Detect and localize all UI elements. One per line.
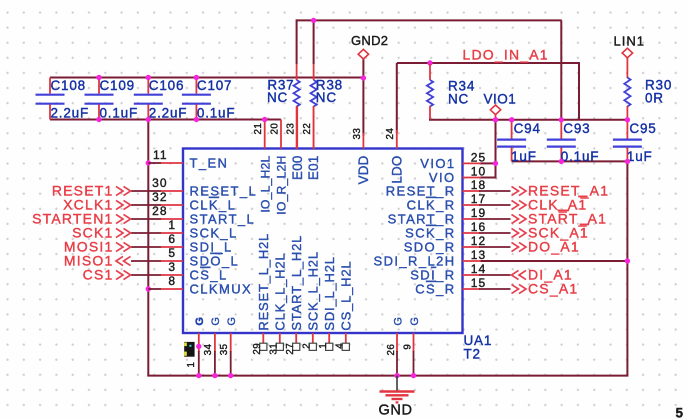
junction C93 top / top-net leg <box>559 117 564 122</box>
resistor R30 bottom lead <box>626 106 628 121</box>
bottom pin stub 27 <box>295 333 297 344</box>
wire to pin25 <box>480 162 496 164</box>
pin 11 stub <box>161 162 183 164</box>
wire pin 32 <box>131 204 161 206</box>
pin 1 stub <box>161 232 183 234</box>
pin 25 stub <box>463 162 482 164</box>
wire pin 1 <box>131 232 161 234</box>
bottom pin stub 1 <box>328 333 330 344</box>
svg-text:5: 5 <box>168 246 176 260</box>
wire pin13 SDI_R_L2H to right vertical <box>480 260 628 262</box>
pin 30 stub <box>161 190 183 192</box>
junction top row <box>96 75 101 80</box>
svg-text:LIN1: LIN1 <box>614 34 645 49</box>
wire pin 5 <box>131 260 161 262</box>
selection-highlighted pin number (black box) <box>184 342 194 357</box>
svg-text:22: 22 <box>302 123 313 135</box>
svg-text:4: 4 <box>334 343 345 349</box>
svg-text:GND2: GND2 <box>351 33 388 48</box>
svg-text:C109: C109 <box>100 78 135 93</box>
capacitor C108 <box>36 94 65 96</box>
arrow CS1 <box>116 270 123 279</box>
wire top-net right leg down to VIO row <box>560 20 562 119</box>
svg-text:17: 17 <box>471 192 486 206</box>
wire left GND vertical <box>147 120 149 376</box>
pin 23 stub <box>296 106 298 149</box>
pin 12 stub <box>463 246 481 248</box>
svg-text:G: G <box>392 317 404 326</box>
wire VIO1 down to pins 25/10 <box>495 120 497 178</box>
svg-text:C106: C106 <box>149 78 184 93</box>
wire pin24 LDO vertical <box>396 63 398 133</box>
svg-text:15: 15 <box>471 276 486 290</box>
wire pin 8 <box>148 288 161 290</box>
resistor R34 <box>427 80 433 107</box>
wire pin 18 <box>479 190 511 192</box>
capacitor C107 bottom lead <box>195 105 197 120</box>
svg-text:16: 16 <box>471 220 486 234</box>
wire R37 top lead upper <box>296 19 298 64</box>
capacitor C108 top lead <box>49 78 51 94</box>
svg-text:0R: 0R <box>645 91 664 106</box>
pin 16 stub <box>463 232 481 234</box>
svg-text:35: 35 <box>219 343 230 355</box>
no-connect square pin 2 <box>309 343 316 350</box>
capacitor C106 <box>134 94 163 96</box>
svg-text:SDI_R: SDI_R <box>410 268 455 283</box>
arrow STA<tspan text-decoration="overline">R</tspan>T_A1 <box>512 214 519 223</box>
svg-text:31: 31 <box>268 343 279 355</box>
svg-text:CLK_R: CLK_R <box>407 198 456 213</box>
pin 6 stub <box>161 246 183 248</box>
svg-text:SCK_L_H2L: SCK_L_H2L <box>305 251 320 330</box>
svg-text:T_EN: T_EN <box>190 156 229 171</box>
no-connect square pin 29 <box>260 343 267 350</box>
arrow RESET_A1 <box>512 186 519 195</box>
svg-text:E00: E00 <box>290 156 305 180</box>
junction pin 25 <box>493 161 498 166</box>
svg-text:1: 1 <box>168 218 176 232</box>
bottom pin stub 29 <box>262 333 264 344</box>
resistor R37 top lead <box>296 64 298 80</box>
junction C95 bottom / right vertical <box>625 159 630 164</box>
capacitor C109 top lead <box>98 78 100 94</box>
pin 17 stub <box>463 204 481 206</box>
svg-text:GND: GND <box>379 403 413 419</box>
bottom pin stub 2 <box>312 333 314 344</box>
pin 10 stub <box>463 177 482 179</box>
svg-text:C108: C108 <box>51 78 86 93</box>
pin 28 stub <box>161 218 183 220</box>
svg-text:1uF: 1uF <box>627 149 653 164</box>
wire pin 11 <box>148 162 161 164</box>
capacitor C95 top lead <box>626 120 628 139</box>
svg-text:C94: C94 <box>514 121 541 136</box>
junction on bus <box>196 373 201 378</box>
svg-text:29: 29 <box>252 343 263 355</box>
svg-text:START_L_H2L: START_L_H2L <box>289 235 304 331</box>
no-connect square pin 4 <box>342 343 349 350</box>
capacitor C109 bottom lead <box>98 105 100 120</box>
junction GND2 / caps top row <box>361 75 366 80</box>
wire LDO_IN_A1 leg down <box>578 62 580 120</box>
svg-text:25: 25 <box>471 151 486 165</box>
svg-text:CS1: CS1 <box>83 267 114 283</box>
junction R38 / top wire <box>311 18 316 23</box>
svg-text:SDO_R: SDO_R <box>404 240 456 255</box>
svg-text:RESET_L: RESET_L <box>190 184 258 199</box>
power port GND2 diamond <box>358 49 368 59</box>
pin 24 stub <box>396 130 398 149</box>
junction top row <box>194 75 199 80</box>
pin 15 stub <box>463 288 481 290</box>
wire right caps bottom row <box>512 160 628 162</box>
wire R38 top lead upper <box>313 19 315 64</box>
svg-text:33: 33 <box>352 128 363 140</box>
svg-text:NC: NC <box>448 92 469 107</box>
pin 18 stub <box>463 190 481 192</box>
pin 20 stub <box>280 120 282 149</box>
capacitor C94 bottom lead <box>511 148 513 162</box>
svg-text:23: 23 <box>286 123 297 135</box>
svg-text:G: G <box>409 317 421 326</box>
svg-text:CLK_L: CLK_L <box>190 198 237 213</box>
port LIN1 diamond <box>622 48 632 58</box>
no-connect square pin 27 <box>293 343 300 350</box>
svg-text:LDO: LDO <box>389 156 404 184</box>
pin 8 stub <box>161 288 183 290</box>
svg-text:2.2uF: 2.2uF <box>149 106 188 121</box>
wire pin 12 <box>479 246 511 248</box>
junction on bus <box>228 373 233 378</box>
svg-text:START_R: START_R <box>388 212 456 227</box>
svg-text:G: G <box>226 317 238 326</box>
pin 21 stub <box>264 120 266 149</box>
svg-text:18: 18 <box>471 178 486 192</box>
resistor R38 top lead <box>313 64 315 80</box>
svg-text:24: 24 <box>385 128 396 140</box>
wire pin 16 <box>479 232 511 234</box>
arrow DO_A1 <box>512 242 519 251</box>
svg-text:21: 21 <box>253 123 264 135</box>
svg-text:SDI_R_L2H: SDI_R_L2H <box>374 254 456 269</box>
resistor R30 top lead <box>626 58 628 79</box>
wire: GND2 to pin 33 <box>362 59 364 136</box>
capacitor C107 top lead <box>195 78 197 94</box>
svg-text:CS_L_H2L: CS_L_H2L <box>338 261 353 331</box>
capacitor C107 <box>182 94 211 96</box>
junction pin21 / bottom row <box>262 117 267 122</box>
wire pin 3 <box>131 274 161 276</box>
resistor R37 <box>294 80 300 107</box>
op-amp/IC body UA1 outline <box>183 149 463 334</box>
junction pin 11 / GND vertical <box>146 160 151 165</box>
svg-text:3: 3 <box>168 260 176 274</box>
junction pin13 / right vertical <box>625 258 630 263</box>
pin 5 stub <box>161 260 183 262</box>
resistor R38 bottom lead <box>313 106 315 149</box>
junction C94 top <box>509 117 514 122</box>
svg-text:DO_A1: DO_A1 <box>528 239 580 255</box>
svg-text:C93: C93 <box>563 121 590 136</box>
svg-text:C95: C95 <box>629 121 656 136</box>
svg-text:RESET_R: RESET_R <box>386 184 456 199</box>
wire pin 15 <box>479 288 511 290</box>
svg-text:CS_L: CS_L <box>190 268 228 283</box>
wire VIO row y119 <box>430 119 628 121</box>
resistor R34 bottom lead <box>429 106 431 120</box>
wire corner to pin10 <box>480 177 497 179</box>
svg-text:G: G <box>194 317 206 326</box>
svg-text:26: 26 <box>386 344 397 356</box>
junction pin 8 / GND vertical <box>146 286 151 291</box>
svg-text:12: 12 <box>471 234 486 248</box>
capacitor C94 top lead <box>511 120 513 139</box>
svg-text:CLK_L_H2L: CLK_L_H2L <box>272 253 287 331</box>
pin 3 stub <box>161 274 183 276</box>
arrow SCK_A<tspan text-decoration="overline">1</tspan> <box>512 228 519 237</box>
capacitor C94 <box>497 139 526 141</box>
pin 33 stub <box>362 133 364 149</box>
capacitor C108 bottom lead <box>49 105 51 120</box>
wire pin 6 <box>131 246 161 248</box>
resistor R38 <box>311 80 317 107</box>
svg-text:8: 8 <box>168 274 176 288</box>
wire caps bottom row y119 <box>50 119 281 121</box>
svg-text:13: 13 <box>471 248 486 262</box>
svg-text:30: 30 <box>152 176 167 190</box>
svg-text:SCK_L: SCK_L <box>190 226 238 241</box>
bottom pin stub 31 <box>279 333 281 344</box>
pin 9 stub <box>413 333 415 352</box>
svg-text:E01: E01 <box>306 156 321 180</box>
svg-text:2: 2 <box>301 343 312 349</box>
resistor R37 bottom lead <box>296 106 298 149</box>
wire bottom GND bus <box>147 375 628 377</box>
svg-text:5: 5 <box>676 406 684 419</box>
capacitor C93 top lead <box>560 120 562 139</box>
svg-text:SDO_L: SDO_L <box>190 254 240 269</box>
arrow SCK1 <box>116 228 123 237</box>
junction on bus <box>212 373 217 378</box>
capacitor C106 top lead <box>147 78 149 94</box>
capacitor C109 <box>85 94 114 96</box>
pin 26 stub <box>396 333 398 352</box>
svg-text:20: 20 <box>269 123 280 135</box>
svg-text:T2: T2 <box>464 347 481 362</box>
svg-text:28: 28 <box>152 204 167 218</box>
junction bottom row <box>96 117 101 122</box>
junction on bus <box>411 373 416 378</box>
capacitor C93 bottom lead <box>560 148 562 162</box>
svg-text:2.2uF: 2.2uF <box>51 106 90 121</box>
pin 13 stub <box>463 260 482 262</box>
svg-text:NC: NC <box>267 90 288 105</box>
port VIO1 diamond <box>490 105 500 115</box>
svg-text:0.1uF: 0.1uF <box>561 149 600 164</box>
svg-text:G: G <box>210 317 222 326</box>
pin 32 stub <box>161 204 183 206</box>
bottom pin stub 2 <box>214 333 216 352</box>
wire: top net wire <box>296 19 562 21</box>
svg-text:RESET_L_H2L: RESET_L_H2L <box>256 233 271 331</box>
svg-text:19: 19 <box>471 206 486 220</box>
stray junction dot by selected pin <box>196 344 201 349</box>
svg-text:VIO1: VIO1 <box>420 156 455 171</box>
pin 19 stub <box>463 218 481 220</box>
svg-text:1uF: 1uF <box>511 149 537 164</box>
junction on bus <box>394 373 399 378</box>
wire right vertical (C95 bottom to bus) <box>626 161 628 375</box>
capacitor C95 <box>613 139 642 141</box>
svg-text:0.1uF: 0.1uF <box>197 106 236 121</box>
arrow CLK_A<tspan text-decoration="overline">1</tspan> <box>512 200 519 209</box>
wire pin 14 <box>479 274 511 276</box>
wire pin 19 <box>479 218 511 220</box>
junction C93 bottom <box>559 159 564 164</box>
resistor R30 <box>624 78 630 107</box>
wire caps top row y77 <box>50 77 363 79</box>
svg-text:34: 34 <box>203 343 214 355</box>
arrow STARTEN1 <box>116 214 123 223</box>
junction bottom row <box>194 117 199 122</box>
svg-text:10: 10 <box>471 165 486 179</box>
wire VIO1 port lead <box>495 115 497 122</box>
junction VIO1 / VIO row <box>493 117 498 122</box>
svg-text:IO_R_L2H: IO_R_L2H <box>275 156 289 215</box>
capacitor C93 <box>547 139 576 141</box>
svg-text:CS_A1: CS_A1 <box>528 281 578 297</box>
svg-text:NC: NC <box>316 90 337 105</box>
svg-text:START_L: START_L <box>190 212 256 227</box>
svg-text:1: 1 <box>186 362 197 368</box>
resistor R34 top lead <box>429 64 431 80</box>
svg-text:6: 6 <box>168 232 176 246</box>
svg-text:1: 1 <box>318 343 329 349</box>
arrow DI_A1 <box>512 270 519 279</box>
bottom pin stub 1 <box>198 333 200 352</box>
junction R34 / LDO_IN_A1 <box>427 60 432 65</box>
svg-text:CS_R: CS_R <box>415 282 455 297</box>
svg-text:LDO_IN_A1: LDO_IN_A1 <box>463 47 549 63</box>
svg-text:VDD: VDD <box>356 155 371 184</box>
wire R34 bottom corner <box>429 119 430 121</box>
capacitor C106 bottom lead <box>147 105 149 120</box>
wire pin 30 <box>131 190 161 192</box>
svg-text:C107: C107 <box>197 78 232 93</box>
svg-text:14: 14 <box>471 262 486 276</box>
svg-text:0.1uF: 0.1uF <box>100 106 139 121</box>
capacitor C95 bottom lead <box>626 148 628 162</box>
svg-text:SDI_L_H2L: SDI_L_H2L <box>322 256 337 330</box>
svg-text:SCK_R: SCK_R <box>405 226 455 241</box>
arrow MISO1 <box>116 256 123 265</box>
arrow CS_A1 <box>512 284 519 293</box>
arrow XCLK1 <box>116 200 123 209</box>
svg-text:11: 11 <box>153 148 167 162</box>
junction top row <box>146 75 151 80</box>
svg-text:27: 27 <box>285 343 296 355</box>
arrow RESET1 <box>116 186 123 195</box>
arrow MOSI1 <box>116 242 123 251</box>
svg-text:IO_L_H2L: IO_L_H2L <box>258 155 272 212</box>
bottom pin stub 3 <box>230 333 232 352</box>
pin 22 stub <box>313 106 315 149</box>
pin 14 stub <box>463 274 481 276</box>
svg-text:9: 9 <box>403 344 414 350</box>
wire pin 17 <box>479 204 511 206</box>
no-connect square pin 31 <box>276 343 283 350</box>
wire pin 28 <box>131 218 161 220</box>
ground symbol GND <box>396 376 398 391</box>
junction C95/R30 <box>625 117 630 122</box>
svg-text:32: 32 <box>152 190 167 204</box>
svg-text:SDI_L: SDI_L <box>190 240 233 255</box>
svg-text:CLKMUX: CLKMUX <box>190 282 253 297</box>
bottom pin stub 4 <box>345 333 347 344</box>
no-connect square pin 1 <box>326 343 333 350</box>
junction bottom row <box>146 117 151 122</box>
wire: LDO_IN_A1 net <box>397 62 579 64</box>
svg-text:VIO1: VIO1 <box>484 92 517 107</box>
